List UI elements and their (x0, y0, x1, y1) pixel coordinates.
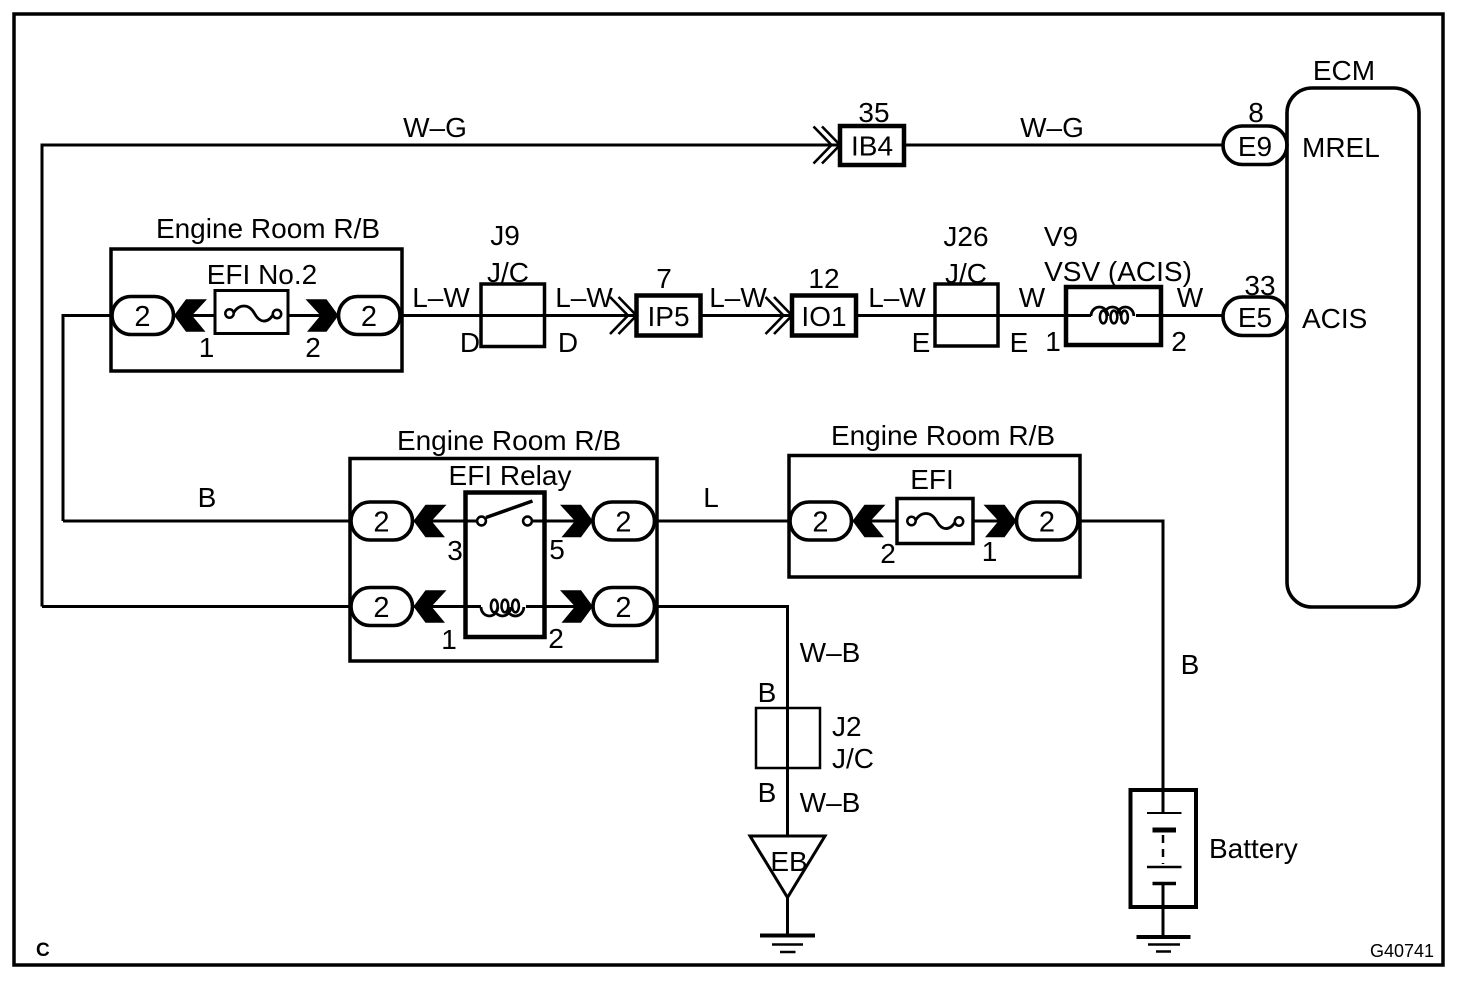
connector arrow male (EFI 1) (984, 505, 1017, 538)
svg-text:W–B: W–B (800, 637, 861, 668)
relay switch contacts (486, 501, 533, 518)
pin E9 oval (1223, 126, 1287, 165)
wire EB to ground (786, 898, 789, 936)
connector arrow male (relay 5) (560, 505, 593, 538)
svg-text:EFI No.2: EFI No.2 (207, 259, 317, 290)
svg-text:EFI: EFI (910, 464, 954, 495)
ground symbol battery (1137, 935, 1191, 939)
wire to relay coil pin 1 (42, 605, 352, 608)
junction block J26 (935, 284, 998, 346)
svg-text:L–W: L–W (868, 282, 926, 313)
junction block J9 (481, 284, 545, 347)
chevron splice into IB4 (814, 127, 841, 164)
svg-text:12: 12 (808, 263, 839, 294)
wire left riser V1 (E9 circuit down to relay coil) (41, 144, 44, 607)
svg-text:IP5: IP5 (647, 301, 689, 332)
svg-text:3: 3 (447, 535, 463, 566)
svg-text:Engine Room R/B: Engine Room R/B (156, 213, 380, 244)
svg-text:2: 2 (812, 507, 828, 539)
svg-text:2: 2 (373, 592, 389, 624)
svg-text:L: L (703, 482, 719, 513)
svg-text:J9: J9 (490, 220, 520, 251)
wire EFI fuse to battery (1078, 520, 1163, 791)
svg-text:1: 1 (199, 332, 215, 363)
svg-text:B: B (198, 482, 217, 513)
Engine Room R/B box (EFI Relay) (350, 459, 657, 662)
svg-text:B: B (1181, 649, 1200, 680)
svg-text:2: 2 (305, 332, 321, 363)
svg-text:W–B: W–B (800, 787, 861, 818)
svg-text:C: C (36, 940, 50, 961)
svg-text:1: 1 (441, 624, 457, 655)
svg-text:Engine Room R/B: Engine Room R/B (831, 420, 1055, 451)
fuse EFI No.2 (215, 291, 288, 334)
connector oval 2 (EFI pin 2) (790, 502, 852, 540)
svg-text:5: 5 (549, 534, 565, 565)
svg-text:W: W (1019, 282, 1046, 313)
Engine Room R/B box (EFI No.2) (111, 249, 402, 371)
svg-text:2: 2 (361, 301, 377, 333)
svg-text:L–W: L–W (709, 282, 767, 313)
svg-text:Engine Room R/B: Engine Room R/B (397, 425, 621, 456)
svg-text:2: 2 (1171, 326, 1187, 357)
wire relay coil row (414, 605, 593, 608)
connector IB4 (840, 126, 904, 165)
junction block J2 (756, 708, 820, 768)
connector oval 2 (relay pin 2) (593, 588, 655, 626)
svg-text:IB4: IB4 (851, 131, 893, 162)
connector arrow female (relay 1) (414, 590, 447, 623)
wire relay pin2 to J2 drop (655, 605, 788, 837)
svg-text:2: 2 (373, 507, 389, 539)
svg-text:IO1: IO1 (801, 301, 846, 332)
connector arrow male (right) (306, 299, 339, 332)
svg-text:J2: J2 (832, 711, 862, 742)
svg-text:2: 2 (548, 623, 564, 654)
svg-text:W–G: W–G (403, 112, 467, 143)
connector oval 2 (EFI No.2 pin 2) (339, 297, 401, 335)
svg-text:EB: EB (770, 846, 807, 877)
svg-text:35: 35 (858, 97, 889, 128)
svg-text:W: W (1177, 282, 1204, 313)
connector oval 2 (relay pin 1) (351, 588, 413, 626)
svg-text:2: 2 (1039, 507, 1055, 539)
svg-text:D: D (460, 327, 480, 358)
connector arrow female (relay 3) (414, 505, 447, 538)
Engine Room R/B box (EFI) (789, 456, 1080, 578)
svg-text:EFI Relay: EFI Relay (449, 460, 572, 491)
wire VSV to E5 (1161, 314, 1223, 317)
svg-text:7: 7 (656, 263, 672, 294)
wire row through EFI (851, 520, 1017, 523)
svg-text:1: 1 (1045, 326, 1061, 357)
svg-text:J26: J26 (943, 221, 988, 252)
connector oval 2 (relay pin 5) (593, 502, 655, 540)
battery (1131, 790, 1197, 937)
svg-text:B: B (758, 677, 777, 708)
svg-text:D: D (558, 327, 578, 358)
svg-text:ACIS: ACIS (1302, 303, 1367, 334)
svg-text:2: 2 (880, 538, 896, 569)
svg-text:L–W: L–W (412, 282, 470, 313)
connector oval 2 (relay pin 3) (351, 502, 413, 540)
wire row through EFI No.2 (113, 314, 1090, 317)
svg-text:VSV (ACIS): VSV (ACIS) (1044, 256, 1192, 287)
ground symbol EB (760, 934, 815, 938)
ECM box (1287, 88, 1419, 607)
svg-text:2: 2 (615, 592, 631, 624)
wire B to relay pin 3 (63, 520, 352, 523)
svg-text:2: 2 (615, 507, 631, 539)
svg-text:2: 2 (134, 301, 150, 333)
svg-text:L–W: L–W (555, 282, 613, 313)
connector IO1 (792, 296, 856, 336)
svg-text:Battery: Battery (1209, 833, 1298, 864)
wire L from relay to EFI fuse (655, 520, 792, 523)
connector arrow male (relay 2) (560, 590, 593, 623)
connector arrow female (EFI 2) (853, 505, 886, 538)
svg-text:E: E (912, 327, 931, 358)
svg-text:B: B (758, 777, 777, 808)
solenoid V9 VSV (ACIS) (1066, 287, 1161, 345)
svg-text:G40741: G40741 (1370, 941, 1434, 961)
svg-text:J/C: J/C (832, 743, 874, 774)
connector arrow female (left) (174, 299, 207, 332)
wire EFI No.2 left lead and riser V2 (63, 314, 113, 521)
relay coil (481, 600, 524, 616)
svg-text:E5: E5 (1238, 302, 1272, 333)
relay inner box (466, 493, 545, 638)
svg-text:1: 1 (982, 536, 998, 567)
fuse EFI (897, 499, 973, 544)
svg-text:W–G: W–G (1020, 112, 1084, 143)
svg-text:V9: V9 (1044, 221, 1078, 252)
chevron splice into IP5 (610, 297, 637, 334)
chevron splice into IO1 (766, 297, 793, 334)
connector oval 2 (EFI No.2 pin 1) (112, 297, 174, 335)
ground EB triangle (750, 836, 825, 898)
wire W-G horizontal from left riser to IB4 (42, 144, 840, 147)
pin E5 oval (1223, 297, 1287, 336)
svg-text:E: E (1010, 327, 1029, 358)
wire relay switch row (414, 520, 593, 523)
svg-text:ECM: ECM (1313, 55, 1375, 86)
svg-text:MREL: MREL (1302, 132, 1380, 163)
svg-text:8: 8 (1248, 97, 1264, 128)
connector IP5 (637, 296, 701, 336)
connector oval 2 (EFI pin 1) (1017, 502, 1079, 540)
svg-text:E9: E9 (1238, 131, 1272, 162)
wire W-G from IB4 to E9 (904, 144, 1223, 147)
